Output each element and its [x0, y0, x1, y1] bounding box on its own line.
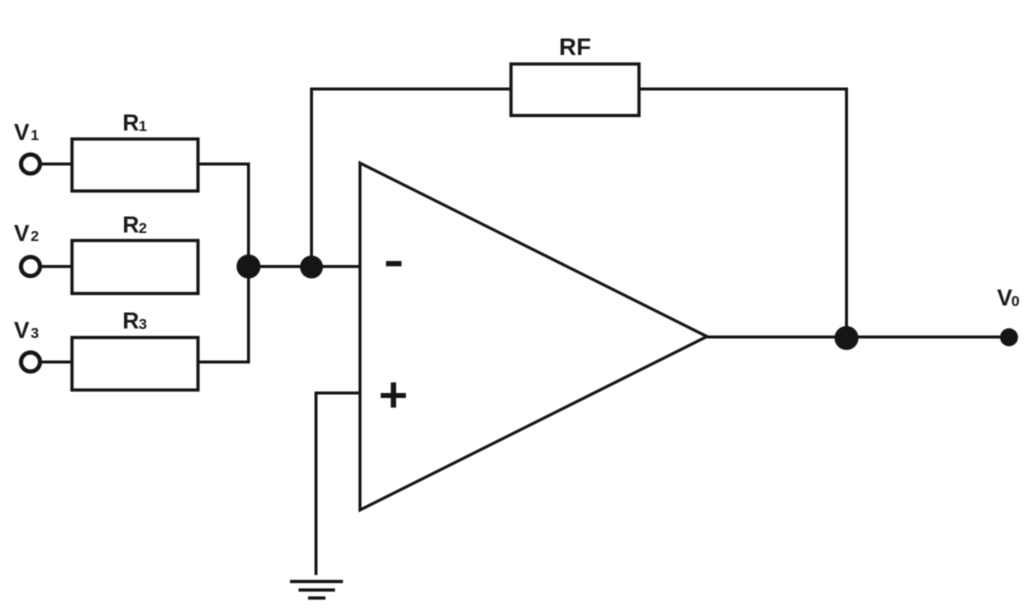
- svg-text:RF: RF: [559, 34, 591, 61]
- svg-text:2: 2: [31, 228, 39, 245]
- svg-text:3: 3: [31, 325, 39, 342]
- svg-text:R: R: [123, 110, 140, 136]
- svg-text:V: V: [14, 119, 30, 145]
- svg-text:V: V: [14, 317, 30, 343]
- svg-text:0: 0: [1011, 293, 1019, 310]
- svg-text:3: 3: [139, 316, 147, 333]
- svg-text:R: R: [123, 212, 140, 238]
- svg-text:1: 1: [31, 127, 39, 144]
- svg-text:1: 1: [139, 118, 147, 135]
- svg-text:R: R: [123, 308, 140, 334]
- svg-text:2: 2: [139, 220, 147, 237]
- svg-text:V: V: [14, 220, 30, 246]
